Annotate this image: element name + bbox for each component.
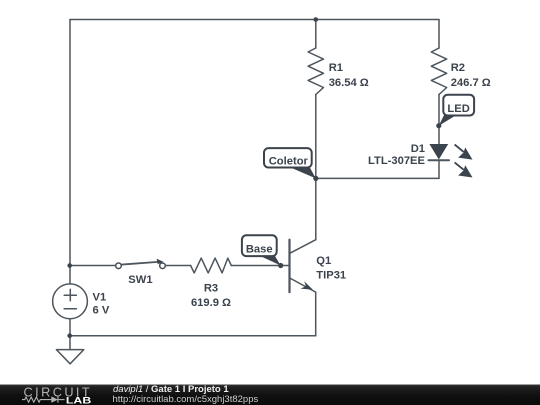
svg-text:LAB: LAB (66, 396, 92, 405)
svg-text:Base: Base (246, 244, 273, 256)
svg-text:246.7 Ω: 246.7 Ω (451, 77, 491, 89)
svg-text:36.54 Ω: 36.54 Ω (329, 77, 369, 89)
svg-text:R1: R1 (329, 62, 343, 74)
svg-text:619.9 Ω: 619.9 Ω (191, 297, 231, 309)
svg-text:Coletor: Coletor (269, 156, 309, 168)
svg-text:http://circuitlab.com/c5xghj3t: http://circuitlab.com/c5xghj3t82pps (113, 394, 259, 405)
svg-text:V1: V1 (93, 291, 107, 303)
svg-text:R3: R3 (204, 282, 218, 294)
svg-text:LED: LED (447, 103, 469, 115)
svg-text:D1: D1 (411, 143, 425, 155)
svg-text:LTL-307EE: LTL-307EE (368, 155, 426, 167)
svg-text:6 V: 6 V (93, 304, 110, 316)
svg-text:SW1: SW1 (128, 274, 152, 286)
svg-text:R2: R2 (451, 62, 465, 74)
svg-text:TIP31: TIP31 (316, 269, 346, 281)
svg-text:Q1: Q1 (316, 255, 331, 267)
